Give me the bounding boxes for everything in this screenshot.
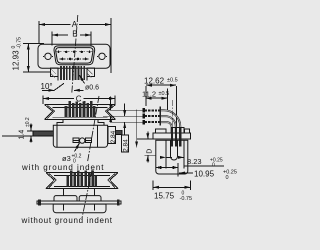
svg-text:2.84: 2.84 — [123, 139, 130, 152]
svg-text:±0.5: ±0.5 — [167, 78, 178, 84]
svg-text:15.75: 15.75 — [154, 192, 175, 201]
svg-text:11.2: 11.2 — [142, 90, 156, 99]
svg-text:±0.2: ±0.2 — [25, 117, 31, 127]
svg-text:12.62: 12.62 — [144, 77, 165, 86]
svg-text:ø3: ø3 — [62, 154, 71, 163]
svg-text:-0.75: -0.75 — [17, 37, 23, 49]
svg-text:0: 0 — [226, 175, 229, 181]
svg-text:12.93: 12.93 — [12, 50, 21, 71]
svg-text:-0.75: -0.75 — [180, 196, 193, 202]
svg-text:0: 0 — [212, 163, 215, 169]
svg-text:C: C — [76, 94, 82, 103]
svg-text:ø0.6: ø0.6 — [85, 85, 99, 92]
svg-text:D: D — [147, 149, 154, 154]
svg-text:1.4: 1.4 — [19, 130, 26, 140]
svg-text:10°: 10° — [41, 82, 53, 91]
svg-text:10.95: 10.95 — [194, 170, 215, 179]
svg-text:2.84: 2.84 — [110, 130, 117, 143]
svg-text:±0.5: ±0.5 — [159, 91, 170, 97]
svg-text:without ground indent: without ground indent — [21, 216, 113, 225]
svg-text:8.23: 8.23 — [187, 157, 202, 166]
